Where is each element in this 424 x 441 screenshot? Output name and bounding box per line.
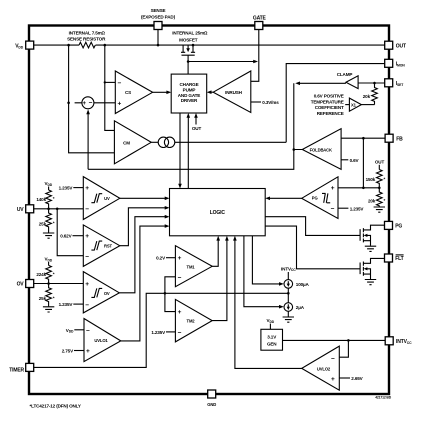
wire: LOGIC to charge pump (arrow up) xyxy=(187,113,191,189)
svg-text:−: − xyxy=(118,80,122,87)
node: UV node resistor junction xyxy=(47,208,50,211)
svg-text:TM1: TM1 xyxy=(187,264,196,269)
svg-text:−: − xyxy=(89,100,93,107)
svg-text:FOLDBACK: FOLDBACK xyxy=(310,148,332,153)
ground: FB divider xyxy=(374,207,385,212)
svg-text:−: − xyxy=(85,206,89,213)
svg-text:VDD: VDD xyxy=(45,181,53,187)
svg-text:GEN: GEN xyxy=(267,342,277,347)
svg-text:0.6V: 0.6V xyxy=(350,158,360,163)
svg-text:FLT: FLT xyxy=(395,256,403,262)
wire: TM1 output up into LOGIC bottom xyxy=(212,236,220,266)
svg-text:0.62V: 0.62V xyxy=(60,234,72,239)
comparator UVLO2 xyxy=(302,346,340,390)
amplifier INRUSH xyxy=(213,71,251,113)
svg-text:20k: 20k xyxy=(368,199,376,204)
svg-text:+: + xyxy=(118,101,122,108)
svg-text:(EXPOSED PAD): (EXPOSED PAD) xyxy=(141,14,176,19)
wire: main VDD rail from VDD pin to OUT pin xyxy=(34,44,79,46)
pin TIMER xyxy=(9,363,34,373)
svg-text:1.235V: 1.235V xyxy=(350,206,365,211)
svg-text:TEMPERATURE: TEMPERATURE xyxy=(311,99,344,104)
svg-text:CM: CM xyxy=(123,140,130,145)
wire: timer branch to TM1 minus and TM2 plus xyxy=(165,277,176,312)
wire: CS minus input xyxy=(105,81,116,83)
svg-text:TM2: TM2 xyxy=(187,319,196,324)
svg-text:+: + xyxy=(331,185,335,192)
transistor internal 25mOhm MOSFET xyxy=(181,44,195,74)
pin FB xyxy=(385,134,403,142)
amplifier CLAMP xyxy=(337,72,358,89)
svg-text:REFERENCE: REFERENCE xyxy=(317,111,344,116)
svg-text:CLAMP: CLAMP xyxy=(337,72,353,77)
svg-text:−: − xyxy=(85,253,89,260)
wire: INRUSH lower input 0.3V/ms xyxy=(251,100,279,105)
op-amp CM current monitor xyxy=(114,121,151,164)
node: PG+ line junction xyxy=(362,187,365,190)
pin GATE xyxy=(253,15,267,29)
svg-text:UV: UV xyxy=(17,207,24,213)
node: 150k/20k divider junction xyxy=(378,187,381,190)
svg-text:−: − xyxy=(178,330,182,337)
pin PG xyxy=(385,221,403,229)
wire: RST plus input 0.62V xyxy=(60,234,83,239)
svg-text:140k: 140k xyxy=(36,197,46,202)
pin ISET xyxy=(385,79,405,87)
wire: charge pump to LOGIC (arrow down) xyxy=(178,113,182,189)
svg-text:GND: GND xyxy=(207,402,216,407)
svg-text:*LTC4217-12 (DFN) ONLY: *LTC4217-12 (DFN) ONLY xyxy=(30,403,81,408)
wire: OUT net arrow up into charge pump xyxy=(192,113,202,131)
wire: INRUSH output arrow into charge pump right edge xyxy=(207,90,214,94)
amplifier FOLDBACK xyxy=(302,129,341,170)
svg-text:LOGIC: LOGIC xyxy=(210,210,226,216)
svg-text:TIMER: TIMER xyxy=(9,368,24,374)
wire: CLAMP output arrow to IMON/foldback vertical xyxy=(295,82,346,86)
comparator PG xyxy=(302,177,338,219)
node: ISET junction xyxy=(373,82,376,85)
pin OV xyxy=(17,280,34,288)
svg-text:2.65V: 2.65V xyxy=(351,376,363,381)
svg-text:−: − xyxy=(85,302,89,309)
comparator UV xyxy=(83,177,120,220)
wire: CS output arrow into charge pump xyxy=(153,91,172,95)
resistor 25k (OV) xyxy=(39,284,55,307)
svg-text:VDD: VDD xyxy=(66,328,74,334)
label OUT above 150k divider xyxy=(375,160,385,170)
svg-text:INTERNAL 7.5mΩ: INTERNAL 7.5mΩ xyxy=(69,31,106,36)
svg-text:OUT: OUT xyxy=(396,43,406,49)
svg-text:0.3V/ms: 0.3V/ms xyxy=(262,100,279,105)
svg-text:3.1V: 3.1V xyxy=(267,335,277,340)
node: timer net junction to TM comparators xyxy=(164,292,167,295)
resistor internal 7.5mOhm sense resistor xyxy=(79,42,95,48)
pin GND xyxy=(207,390,216,407)
svg-text:+: + xyxy=(85,233,89,240)
svg-text:421712 BD: 421712 BD xyxy=(375,396,392,400)
svg-text:SENSE: SENSE xyxy=(151,8,166,13)
pin VDD xyxy=(15,41,33,49)
wire: RST output up into LOGIC xyxy=(120,206,170,246)
buffer X1 xyxy=(349,98,374,111)
wire: between current sources xyxy=(287,288,289,303)
node: timer net junction at current sources xyxy=(287,292,290,295)
svg-text:0.6V POSITIVE: 0.6V POSITIVE xyxy=(314,94,344,99)
wire: UVLO1 minus input VDD xyxy=(66,328,84,334)
svg-text:2.75V: 2.75V xyxy=(62,349,74,354)
node: MOSFET gate lead junction xyxy=(187,60,190,63)
wire: rail left node down to offset source and CM bottom input xyxy=(69,45,115,153)
transistor PG pull-down FET xyxy=(360,225,384,246)
wire: OV pin to OV comparator plus input xyxy=(34,283,84,285)
svg-text:PUMP: PUMP xyxy=(183,88,196,93)
svg-text:UVLO1: UVLO1 xyxy=(94,338,108,343)
comparator RST xyxy=(83,225,120,267)
svg-text:DRIVER: DRIVER xyxy=(181,98,198,103)
wire: foldback output to offset source (down, left, up with arrow) xyxy=(86,83,302,169)
offset voltage source circle (+ -) xyxy=(75,97,116,109)
wire: foldback lower input 0.6V xyxy=(341,158,359,163)
wire: UVLO2 plus input 2.65V xyxy=(339,376,363,381)
svg-text:PG: PG xyxy=(312,196,318,201)
wire: divider junction to PG plus input xyxy=(338,187,379,189)
svg-text:OUT: OUT xyxy=(375,160,385,165)
comparator OV xyxy=(83,272,119,313)
label internal 25mOhm MOSFET xyxy=(172,31,208,43)
svg-text:0.2V: 0.2V xyxy=(156,256,166,261)
wire: OV output up into LOGIC xyxy=(119,215,169,293)
svg-text:FB: FB xyxy=(396,136,403,142)
comparator UVLO1 xyxy=(84,319,121,362)
wire: INTVCC junction down to UVLO2 minus input xyxy=(339,340,348,357)
wire: gate drive wire to GATE pin vertical with arrow xyxy=(188,60,258,64)
block LOGIC xyxy=(170,189,266,236)
node: INTVCC junction xyxy=(347,339,350,342)
svg-text:150k: 150k xyxy=(366,177,376,182)
svg-text:INTERNAL 25mΩ: INTERNAL 25mΩ xyxy=(172,31,208,36)
svg-text:INTVCC: INTVCC xyxy=(281,266,296,272)
wire: TM2 minus input 1.235V xyxy=(151,330,175,335)
svg-text:OUT: OUT xyxy=(192,126,202,131)
svg-text:−: − xyxy=(331,206,335,213)
svg-text:PG: PG xyxy=(395,224,402,230)
resistor 20k (FB divider) xyxy=(368,188,386,207)
wire: UV output arrow into LOGIC xyxy=(120,197,170,201)
svg-text:+: + xyxy=(85,281,89,288)
ground: PG FET xyxy=(365,246,376,251)
svg-text:224k: 224k xyxy=(36,272,46,277)
wire: FB junction down to PG+ line xyxy=(362,138,364,188)
block 3.1V GEN xyxy=(261,329,283,350)
wire: TM2 output up into LOGIC bottom xyxy=(212,236,229,321)
svg-text:−: − xyxy=(178,274,182,281)
svg-text:−: − xyxy=(331,355,335,362)
svg-text:SENSE RESISTOR: SENSE RESISTOR xyxy=(67,37,106,42)
label VDD above 224k xyxy=(45,257,53,266)
wire: rail continues to OUT pin xyxy=(96,44,385,46)
wire: LOGIC down to 100uA source feed xyxy=(252,236,283,286)
svg-text:OV: OV xyxy=(17,282,25,288)
transistor FLT pull-down FET xyxy=(360,258,384,279)
node: CS- branch xyxy=(104,81,106,83)
svg-text:INRUSH: INRUSH xyxy=(225,90,243,95)
svg-text:COEFFICIENT: COEFFICIENT xyxy=(315,105,344,110)
pin OUT xyxy=(385,41,406,49)
wire: mirror output up to IMON pin xyxy=(286,64,385,143)
node: FB junction xyxy=(362,137,365,140)
resistor 25k (UV) xyxy=(39,209,55,233)
wire: OV minus input 1.235V xyxy=(59,302,84,307)
label internal sense resistor xyxy=(67,31,106,42)
wire: UVLO1 output up into LOGIC xyxy=(121,224,170,341)
resistor 150k xyxy=(366,170,386,188)
wire: ISET pin to clamp input and 20k top xyxy=(358,82,385,84)
svg-text:VDD: VDD xyxy=(45,257,53,263)
node: SENSE pin drop junction xyxy=(157,44,160,47)
svg-text:+: + xyxy=(178,255,182,262)
svg-text:UVLO2: UVLO2 xyxy=(317,367,331,372)
wire: UV pin to UV comparator minus input xyxy=(34,208,84,210)
svg-text:1.235V: 1.235V xyxy=(59,186,74,191)
wire: TM1 plus input 0.2V xyxy=(156,256,175,261)
svg-text:+: + xyxy=(85,185,89,192)
pin INTVCC xyxy=(385,337,412,345)
wire: FB pin to foldback top input xyxy=(341,137,385,139)
wire: SENSE pin down to rail xyxy=(157,30,159,46)
pin IMON xyxy=(385,59,406,67)
wire: 3.1V GEN output to INTVCC pin xyxy=(283,339,386,341)
svg-text:+: + xyxy=(178,309,182,316)
label INTVCC above 100uA source xyxy=(281,266,296,279)
svg-text:1.235V: 1.235V xyxy=(59,302,74,307)
current source 100uA xyxy=(284,280,310,289)
block charge pump and gate driver xyxy=(171,74,207,113)
pin UV xyxy=(17,205,34,213)
label VDD above 3.1V GEN xyxy=(267,318,275,329)
wire: PG minus input 1.235V xyxy=(338,206,364,211)
comparator TM1 xyxy=(175,246,212,287)
ground: 2uA source xyxy=(283,311,294,322)
node: OV node junction xyxy=(47,282,50,285)
resistor 224k xyxy=(36,265,54,283)
svg-text:+: + xyxy=(331,376,335,383)
wire: PG comparator output arrow into LOGIC xyxy=(265,197,302,201)
svg-text:MOSFET: MOSFET xyxy=(179,38,198,43)
ground: FLT FET xyxy=(365,280,376,285)
node: rail junction left of sense resistor xyxy=(67,44,70,47)
ground: OV divider xyxy=(43,307,54,312)
svg-text:CS: CS xyxy=(125,90,131,95)
wire: LOGIC down to 2uA source feed xyxy=(244,236,284,309)
svg-text:AND GATE: AND GATE xyxy=(178,93,201,98)
wire: LOGIC to FLT FET gate xyxy=(265,226,360,269)
svg-text:GATE: GATE xyxy=(253,15,267,21)
node: offset source branch xyxy=(67,102,70,105)
svg-text:25k: 25k xyxy=(39,296,47,301)
wire: GATE pin down then left into INRUSH input xyxy=(251,30,259,82)
svg-text:20k: 20k xyxy=(363,94,371,99)
wire: TIMER pin right then up to timer net xyxy=(34,293,289,367)
wire: rail right node down to CS- and CM top input xyxy=(105,45,115,130)
svg-text:2µA: 2µA xyxy=(296,305,305,310)
svg-text:1.235V: 1.235V xyxy=(151,330,166,335)
pin SENSE (exposed pad) xyxy=(141,8,176,29)
svg-text:100µA: 100µA xyxy=(296,282,310,287)
svg-text:25k: 25k xyxy=(39,221,47,226)
svg-text:+: + xyxy=(86,348,90,355)
svg-text:CHARGE: CHARGE xyxy=(179,82,198,87)
svg-text:VDD: VDD xyxy=(267,318,275,324)
resistor 20k (ISET) xyxy=(363,83,378,105)
svg-text:UV: UV xyxy=(104,196,110,201)
svg-text:X1: X1 xyxy=(351,103,357,108)
ground: UV divider xyxy=(43,233,54,238)
current source 2uA xyxy=(284,303,305,312)
wire: LOGIC to PG FET gate xyxy=(265,217,360,236)
op-amp CS current sense xyxy=(115,71,152,114)
wire: UV plus input 1.235V xyxy=(59,186,84,191)
IC outer border xyxy=(29,26,389,395)
wire: UVLO2 output left and up into LOGIC bottom xyxy=(233,236,302,369)
svg-text:OV: OV xyxy=(104,291,110,296)
resistor 140k xyxy=(36,190,54,209)
node: rail junction right of sense resistor xyxy=(104,44,107,47)
wire: UV node down to RST minus input xyxy=(57,209,83,256)
svg-text:−: − xyxy=(86,327,90,334)
wire: UVLO1 plus input 2.75V xyxy=(62,349,84,354)
pin FLT (active low) xyxy=(385,254,404,262)
node: UV node RST branch junction xyxy=(56,208,59,211)
comparator TM2 xyxy=(175,299,212,342)
label VDD above 140k xyxy=(45,181,53,190)
current mirror symbol xyxy=(151,137,286,147)
label 0.6V positive temperature coefficient reference xyxy=(311,94,350,116)
svg-text:RST: RST xyxy=(104,244,113,249)
